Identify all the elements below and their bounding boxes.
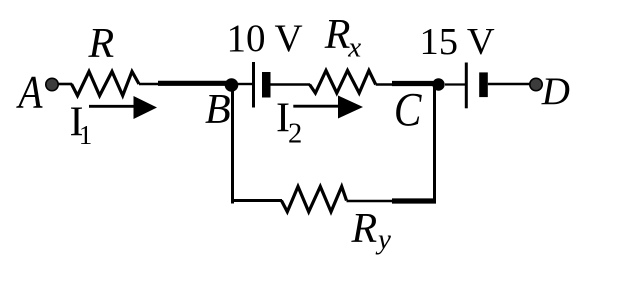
svg-text:y: y	[375, 223, 391, 255]
svg-text:C: C	[394, 83, 423, 136]
svg-text:R: R	[324, 12, 351, 58]
svg-text:10 V: 10 V	[227, 17, 303, 60]
svg-text:R: R	[88, 21, 115, 67]
svg-text:1: 1	[79, 120, 93, 150]
svg-text:x: x	[347, 32, 361, 64]
svg-text:15 V: 15 V	[420, 21, 495, 63]
svg-text:A: A	[16, 66, 43, 118]
svg-text:D: D	[541, 70, 570, 113]
svg-text:2: 2	[288, 119, 302, 150]
svg-text:R: R	[351, 206, 378, 252]
svg-text:B: B	[205, 87, 231, 133]
